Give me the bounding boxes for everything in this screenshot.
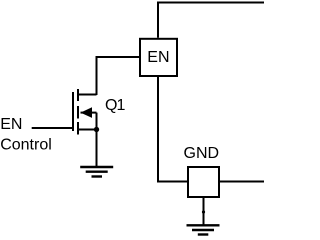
svg-text:EN: EN <box>0 116 22 133</box>
svg-text:GND: GND <box>184 145 220 162</box>
label EN Control <box>0 116 52 154</box>
ground under Q1 <box>80 167 113 177</box>
junction at Q1 source/body <box>94 127 99 132</box>
svg-text:Q1: Q1 <box>105 97 125 114</box>
pin GND <box>188 167 219 197</box>
svg-text:Control: Control <box>0 137 52 154</box>
wire from GND box right to right edge <box>220 181 264 183</box>
wire from Q1 drain up to EN box left pin <box>97 57 140 95</box>
svg-text:EN: EN <box>147 49 169 66</box>
wire top rail from EN box up and to right edge <box>158 3 264 38</box>
wire from GND box bottom to ground <box>203 197 205 225</box>
wire from EN box bottom to GND box left <box>158 77 187 182</box>
wire gate from EN Control label to Q1 gate <box>32 127 72 129</box>
transistor Q1 <box>73 89 97 135</box>
pin EN <box>140 39 177 76</box>
ground under GND box <box>187 225 220 234</box>
junction tick on GND stem <box>202 210 205 213</box>
wire from junction down to ground <box>96 130 98 167</box>
